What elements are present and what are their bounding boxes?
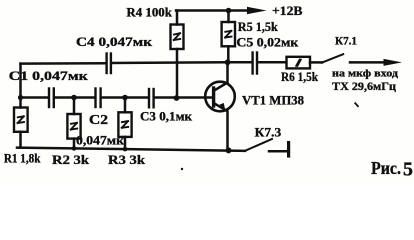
svg-text:С5 0,02мк: С5 0,02мк: [236, 35, 299, 49]
node R2 bottom: [72, 146, 77, 151]
node R3 bottom: [123, 147, 128, 152]
resistor R6: [287, 57, 323, 69]
node R2 top: [71, 95, 77, 101]
svg-text:К7.1: К7.1: [335, 36, 357, 48]
svg-text:0,047мк: 0,047мк: [76, 134, 125, 148]
wire bottom emitter rail: [17, 148, 245, 151]
capacitor C4: [107, 54, 111, 74]
svg-text:+12В: +12В: [272, 3, 303, 18]
node base bias junction: [174, 95, 180, 101]
svg-text:R1 1,8k: R1 1,8k: [4, 151, 41, 165]
switch K7.1 blade: [322, 54, 343, 62]
svg-text:на мкф вход: на мкф вход: [332, 68, 399, 79]
wire collector net horizontal right part: [112, 61, 228, 64]
wire top +12V rail: [176, 9, 249, 12]
wire +12V arrow: [247, 7, 267, 14]
svg-text:R4 100k: R4 100k: [126, 6, 172, 20]
node top rail / R5 junction: [226, 8, 232, 14]
svg-text:R5 1,5k: R5 1,5k: [238, 20, 278, 34]
capacitor C5: [228, 53, 287, 74]
capacitor C3: [149, 89, 154, 107]
resistor R4: [171, 11, 184, 50]
svg-text:VT1 МП38: VT1 МП38: [242, 94, 304, 108]
node emitter to rail: [226, 147, 232, 153]
stray speck bottom middle: [181, 168, 183, 170]
wire R4 bottom lead to base node: [176, 49, 179, 98]
resistor R2: [67, 98, 80, 149]
svg-text:R2 3k: R2 3k: [52, 153, 89, 167]
wire collector net horizontal: [21, 62, 106, 65]
resistor R1: [14, 108, 28, 148]
svg-text:С4 0,047мк: С4 0,047мк: [76, 35, 153, 49]
svg-text:С3 0,1мк: С3 0,1мк: [140, 110, 193, 124]
resistor R5: [222, 11, 235, 63]
wire base ladder segment 3: [101, 96, 148, 99]
wire base ladder segment 2: [55, 96, 93, 99]
node ladder input: [18, 95, 23, 100]
svg-text:5: 5: [403, 159, 413, 181]
svg-text:С2: С2: [89, 112, 108, 127]
svg-text:R6 1,5k: R6 1,5k: [281, 70, 318, 84]
stray mark under output text: [355, 103, 358, 106]
node collector junction: [225, 59, 231, 65]
svg-text:ТХ 29,6мГц: ТХ 29,6мГц: [332, 79, 396, 93]
node R3 top: [122, 95, 128, 101]
svg-text:R3 3k: R3 3k: [108, 153, 145, 167]
svg-text:К7.3: К7.3: [255, 126, 282, 140]
wire base ladder segment 1: [21, 96, 48, 99]
transistor VT1: [205, 62, 235, 150]
wire base ladder segment 4 to transistor base: [155, 96, 212, 99]
capacitor C1: [49, 89, 54, 108]
capacitor C2: [96, 89, 101, 108]
wire output arrow: [350, 59, 402, 66]
resistor R3: [118, 98, 131, 149]
svg-text:Рис.: Рис.: [371, 158, 401, 178]
svg-text:С1 0,047мк: С1 0,047мк: [9, 69, 89, 83]
switch K7.3: [245, 139, 289, 156]
wire left vertical branch: [19, 64, 22, 108]
